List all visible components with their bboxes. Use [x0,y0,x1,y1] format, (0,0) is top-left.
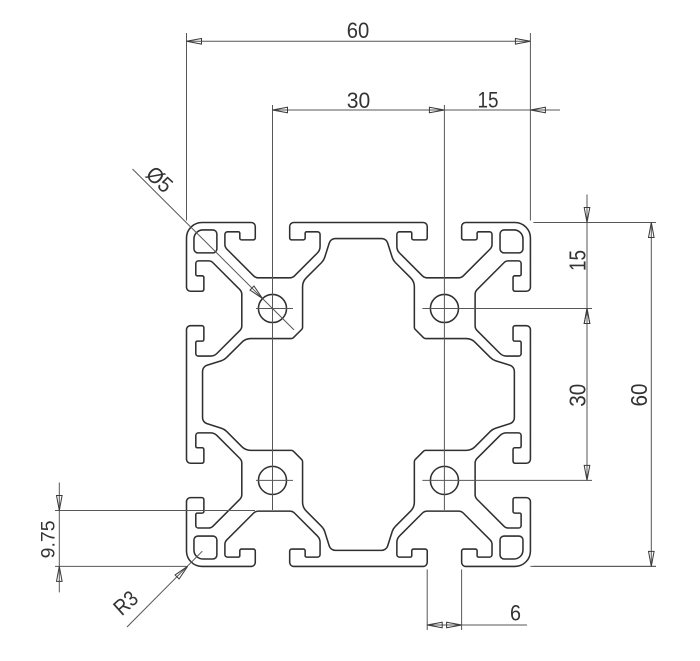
svg-text:30: 30 [347,88,371,113]
svg-text:15: 15 [565,250,591,271]
svg-text:60: 60 [626,384,652,407]
svg-text:60: 60 [347,18,370,43]
svg-text:9.75: 9.75 [38,520,60,558]
svg-text:6: 6 [510,601,521,626]
svg-text:15: 15 [478,88,499,113]
svg-text:30: 30 [565,384,591,407]
